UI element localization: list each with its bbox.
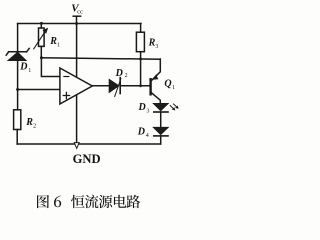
wire node A down and to - input (41, 58, 60, 77)
transistor Q1 (151, 59, 161, 103)
svg-text:cc: cc (77, 9, 83, 16)
junction R1 top on Vcc rail (40, 22, 43, 25)
resistor R3 (136, 32, 144, 52)
wire op-amp output (92, 85, 109, 87)
svg-text:D: D (137, 127, 145, 138)
resistor R2 (14, 110, 21, 130)
svg-text:Q: Q (164, 79, 171, 90)
op-amp U1 (60, 68, 92, 104)
wire R1 bottom to node A (40, 46, 42, 57)
junction R3 bottom on mid wire (139, 58, 142, 61)
LED D3 (153, 103, 179, 112)
wire mid horizontal (node A to collector corner) (41, 58, 159, 59)
junction + input tap on left wire (16, 88, 19, 91)
zener diode D1 (6, 48, 29, 60)
ground arrow (74, 143, 79, 149)
wire + input (left vertical to op-amp) (18, 89, 60, 91)
svg-text:D: D (19, 62, 27, 73)
svg-text:1: 1 (57, 43, 60, 49)
wire D3 to D4 (160, 112, 162, 127)
wire D4 to bottom rail (160, 136, 162, 144)
svg-text:D: D (138, 102, 146, 113)
svg-text:R: R (49, 36, 57, 47)
svg-text:D: D (115, 68, 123, 79)
wire top rail (18, 23, 141, 25)
svg-text:2: 2 (125, 73, 128, 79)
wire R2 bottom to ground rail (16, 130, 18, 145)
junction node A (R1 bottom) (40, 56, 43, 59)
svg-text:1: 1 (172, 85, 175, 91)
wire left vertical upper (rail to zener) (17, 24, 19, 52)
diode D2 (109, 78, 121, 97)
svg-text:1: 1 (28, 68, 31, 74)
wire R3 bottom to base node (140, 52, 142, 86)
svg-text:4: 4 (146, 133, 149, 139)
svg-text:GND: GND (73, 152, 101, 166)
junction base node (139, 84, 142, 87)
svg-text:2: 2 (33, 124, 36, 130)
wire R3 top stub (140, 24, 142, 33)
caption 图6 恒流源电路 (37, 195, 49, 208)
resistor R1 (variable) (34, 28, 49, 49)
wire R1 top stub (40, 23, 42, 28)
svg-text:3: 3 (146, 108, 149, 114)
svg-text:R: R (148, 37, 156, 48)
wire left vertical mid (zener to R2) (17, 60, 19, 109)
wire D2 to base (120, 85, 150, 87)
svg-text:R: R (25, 117, 33, 128)
svg-text:3: 3 (155, 44, 158, 50)
wire bottom rail (17, 143, 160, 145)
Vcc terminal (73, 16, 80, 23)
diode D4 (153, 127, 168, 136)
wire op-amp power vertical (76, 23, 78, 142)
junction Vcc terminal on rail (75, 22, 78, 25)
